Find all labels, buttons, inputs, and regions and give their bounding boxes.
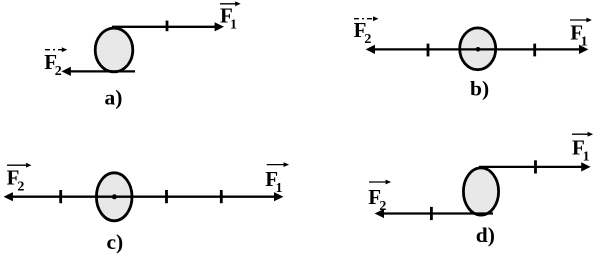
axle dot (c) bbox=[112, 194, 117, 199]
label F1 (d) bbox=[572, 132, 593, 165]
svg-text:2: 2 bbox=[17, 179, 24, 194]
label F2 (c) bbox=[7, 163, 32, 195]
svg-text:1: 1 bbox=[276, 181, 283, 196]
svg-text:1: 1 bbox=[230, 18, 237, 33]
arrowhead F1 (a) bbox=[215, 22, 224, 31]
arrowhead F2 (c) bbox=[4, 192, 13, 201]
svg-text:d): d) bbox=[476, 223, 495, 247]
force F1 wire (a) bbox=[112, 26, 216, 28]
tick mark left (b) bbox=[427, 44, 430, 57]
spool a bbox=[95, 28, 133, 72]
tick mark right (b) bbox=[533, 44, 536, 57]
arrowhead F1 (c) bbox=[274, 192, 283, 201]
tick mark right (c) bbox=[220, 190, 223, 203]
arrowhead F2 (b) bbox=[366, 45, 375, 54]
label F2 (b) bbox=[354, 16, 379, 47]
svg-text:b): b) bbox=[470, 77, 489, 101]
tick mark mid (c) bbox=[165, 190, 168, 203]
svg-text:1: 1 bbox=[581, 34, 588, 49]
label F2 (d) bbox=[368, 180, 391, 215]
svg-text:1: 1 bbox=[583, 149, 590, 164]
axle dot (b) bbox=[476, 47, 481, 52]
spool c bbox=[96, 173, 132, 221]
spool b bbox=[460, 28, 496, 70]
force line (b) bbox=[373, 48, 581, 50]
label F1 (a) bbox=[220, 1, 241, 32]
svg-text:a): a) bbox=[105, 86, 123, 110]
label F1 (c) bbox=[265, 162, 289, 196]
label F2 (a) bbox=[44, 47, 67, 79]
spool d bbox=[463, 168, 498, 215]
force F2 wire (a) bbox=[70, 70, 135, 72]
tick mark top (d) bbox=[534, 160, 537, 173]
svg-text:c): c) bbox=[107, 230, 124, 254]
force line (c) bbox=[11, 196, 276, 198]
arrowhead F1 (d) bbox=[581, 162, 590, 171]
force F2 wire (d) bbox=[382, 212, 493, 214]
label F1 (b) bbox=[570, 18, 592, 50]
svg-text:2: 2 bbox=[55, 64, 62, 79]
arrowhead F1 (b) bbox=[579, 45, 588, 54]
tick mark left (c) bbox=[59, 190, 62, 203]
svg-text:2: 2 bbox=[364, 32, 371, 47]
arrowhead F2 (a) bbox=[62, 67, 71, 76]
svg-text:2: 2 bbox=[379, 199, 386, 214]
arrowhead F2 (d) bbox=[375, 209, 384, 218]
force F1 wire (d) bbox=[479, 166, 583, 168]
tick mark (a) bbox=[166, 21, 169, 32]
tick mark bottom (d) bbox=[430, 207, 433, 220]
